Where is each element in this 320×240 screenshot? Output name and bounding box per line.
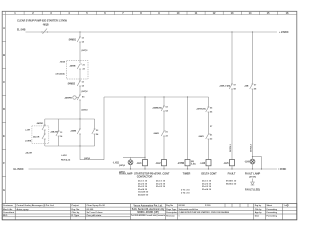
svg-text:53x54 9 10: 53x54 9 10 (138, 194, 149, 197)
contact -24MLO 97/98 (229, 84, 233, 89)
svg-text:24TOL1: 24TOL1 (229, 143, 232, 152)
top border ticks and numbers (24, 11, 277, 14)
svg-text:(24T)4: (24T)4 (84, 157, 91, 160)
svg-text:(24T)3: (24T)3 (82, 108, 89, 111)
svg-text:D. Type: D. Type (72, 215, 80, 217)
svg-text:-24MB: -24MB (70, 130, 77, 133)
svg-text:-24MLO [M]: -24MLO [M] (219, 85, 230, 88)
svg-text:FAULT: FAULT (228, 172, 236, 175)
svg-text:-24MB: -24MB (69, 65, 76, 68)
svg-text:Corr pith stato: Corr pith stato (87, 214, 102, 217)
svg-text:P-100: P-100 (205, 205, 211, 207)
contact cross reference table star (156, 181, 166, 189)
svg-text:D: D (3, 107, 5, 111)
border frame inner left line (5, 11, 7, 203)
svg-text:Clear Syrup Pu 02: Clear Syrup Pu 02 (87, 205, 106, 207)
svg-text:(47/1H): (47/1H) (249, 175, 256, 178)
contact cross reference table delta (202, 181, 212, 191)
svg-text:-CB (22/4): -CB (22/4) (55, 73, 65, 76)
svg-text:Formatting: Formatting (267, 208, 278, 211)
svg-text:Chk by: Chk by (255, 209, 263, 211)
svg-text:24TOL2: 24TOL2 (250, 143, 253, 152)
svg-text:-LOR: -LOR (25, 130, 30, 132)
fault lamp -LH6 (250, 159, 255, 164)
svg-text:24LOR: 24LOR (33, 136, 40, 139)
junctions on bottom rail (130, 168, 131, 169)
svg-text:-LH6: -LH6 (244, 161, 250, 164)
svg-text:LO/RE: LO/RE (25, 141, 32, 143)
svg-text:RUN (LO): RUN (LO) (61, 160, 70, 162)
svg-text:1 of 1: 1 of 1 (284, 205, 290, 207)
riser wire to bus (103, 97, 105, 160)
svg-text:B-91, Sector-63, electronic ci: B-91, Sector-63, electronic city (132, 208, 165, 211)
svg-text:DELTA CONT: DELTA CONT (201, 172, 217, 175)
wire bypass elbow (253, 157, 262, 169)
contact -24MB 53/54 (161, 106, 165, 111)
wire main ladder top segment (79, 32, 81, 37)
local selector branch wire (44, 119, 46, 125)
svg-text:2 T2 x 10: 2 T2 x 10 (181, 192, 190, 194)
fault branch from top rail (231, 31, 232, 32)
start pushbutton branch (58, 119, 60, 131)
contactor branch wire (144, 97, 146, 160)
svg-text:(24T)2: (24T)2 (82, 90, 89, 93)
svg-text:RUN-LAMP: RUN-LAMP (119, 172, 132, 175)
interlock contact -24M1 21/22 (206, 134, 211, 139)
svg-text:CLEAR SYRUP PUMP 02D STARTER-1: CLEAR SYRUP PUMP 02D STARTER-1 37KW (17, 20, 68, 23)
wire (79, 69, 81, 81)
svg-text:97x98 1 10: 97x98 1 10 (226, 181, 237, 183)
svg-text:NOIDA -201301 (UP): NOIDA -201301 (UP) (137, 211, 158, 214)
svg-text:Customer: Customer (3, 204, 13, 207)
svg-text:-LH2: -LH2 (155, 162, 161, 165)
svg-text:-24B: -24B (244, 85, 249, 88)
svg-text:Artos syrup: Artos syrup (17, 208, 30, 211)
border frame inner top line (2, 14, 297, 16)
title block (2, 204, 297, 220)
svg-text:-24MB1: -24MB1 (68, 39, 77, 42)
svg-text:21x4 4 10: 21x4 4 10 (138, 188, 148, 191)
svg-text:Central Godrej Beverages (I) P: Central Godrej Beverages (I) Pvt. Ltd. (17, 204, 55, 207)
run lamp connector (123, 156, 145, 158)
breaker auxiliary dashed box -MCB (67, 61, 89, 80)
svg-text:21x3 3 10: 21x3 3 10 (202, 186, 212, 188)
svg-text:-24M1: -24M1 (198, 135, 205, 138)
interlock contact -24M2 21/22 (161, 131, 166, 136)
svg-text:Tel: 0120-4510500 / e-mail: in: Tel: 0120-4510500 / e-mail: info@vecon.i… (131, 214, 165, 217)
svg-text:FAULT (LED): FAULT (LED) (245, 189, 260, 192)
contact -24MB 21/22 inside box (77, 64, 82, 69)
svg-text:-24M2: -24M2 (153, 132, 160, 135)
svg-text:-LH5: -LH5 (223, 162, 229, 165)
svg-text:21x3 3 10: 21x3 3 10 (156, 186, 166, 188)
contact fault lamp 07/08 (250, 84, 254, 89)
svg-text:TIMER: TIMER (183, 172, 191, 175)
wire (79, 86, 81, 95)
run lamp -LH11 (130, 157, 132, 160)
selector contact lower (42, 134, 46, 139)
svg-text:Revision: Revision (166, 215, 175, 217)
svg-text:B: B (3, 53, 5, 57)
svg-text:-24TM: -24TM (177, 162, 184, 165)
svg-text:W.O.: W.O. (3, 215, 8, 217)
timer coil -24TM (185, 160, 190, 166)
bus wire (104, 96, 209, 98)
fault lamp branch from top rail (252, 31, 253, 32)
svg-text:-LH11: -LH11 (113, 161, 120, 164)
svg-text:-24MB2: -24MB2 (67, 83, 76, 86)
svg-text:Project: Project (72, 204, 80, 207)
svg-text:+ 24VDC: + 24VDC (279, 31, 289, 34)
contact -24TM 55/56 (206, 107, 210, 112)
wire down to start/stop block (79, 100, 81, 119)
selector contact -24LOR (42, 125, 46, 130)
svg-text:-24B-SB: -24B-SB (50, 131, 58, 134)
seal-in aux contact branch 53/54 (94, 119, 96, 129)
fault LED stub below rail (252, 179, 254, 183)
svg-text:02-100: 02-100 (87, 209, 94, 211)
svg-text:-24LOR: -24LOR (25, 152, 33, 155)
svg-text:21x1 1 10: 21x1 1 10 (156, 181, 166, 183)
svg-text:21x2 2 10: 21x2 2 10 (156, 183, 166, 185)
svg-text:21x4 4 10: 21x4 4 10 (202, 188, 212, 191)
contactor coil -LH1 (143, 160, 148, 166)
svg-text:-24MPB: -24MPB (64, 96, 72, 99)
svg-text:Drg. No: Drg. No (72, 209, 80, 211)
junction main rail to ladder (79, 31, 80, 32)
svg-text:FAULT LAMP: FAULT LAMP (245, 172, 261, 175)
svg-text:13x14 8 10: 13x14 8 10 (138, 191, 149, 194)
svg-text:Formatting: Formatting (267, 214, 278, 217)
svg-text:21x1 1 10: 21x1 1 10 (138, 181, 148, 183)
svg-text:G: G (3, 188, 5, 192)
svg-text:-LH1: -LH1 (136, 162, 142, 165)
svg-text:App by: App by (255, 211, 263, 214)
svg-text:E: E (3, 134, 5, 138)
svg-text:Sheet: Sheet (267, 204, 273, 207)
svg-text:EL-0VDC: EL-0VDC (14, 168, 24, 171)
star contactor branch (163, 97, 165, 106)
svg-text:Cha. by: Cha. by (72, 212, 81, 214)
star coil -LH2 (162, 160, 167, 166)
fuse F1 symbol (43, 29, 48, 34)
svg-text:CONTACTOR: CONTACTOR (137, 175, 153, 178)
svg-text:02-100: 02-100 (179, 205, 186, 207)
emergency stop push button -24MPB E1 (73, 95, 81, 100)
svg-text:Formatting: Formatting (267, 211, 278, 214)
svg-text:95x96 2 10: 95x96 2 10 (226, 183, 237, 185)
contact cross reference table fault (226, 181, 237, 186)
left border ticks and letters (2, 42, 5, 177)
svg-text:Drg by: Drg by (255, 204, 262, 207)
svg-text:21x3 3 10: 21x3 3 10 (138, 186, 148, 188)
wire +24VDC top rail (26, 31, 278, 33)
contact cross reference table contactor (138, 181, 149, 197)
node top row of start/stop block (45, 118, 95, 120)
svg-text:A: A (3, 26, 5, 30)
delta contactor branch (208, 97, 210, 107)
svg-text:Schematic multi-line: Schematic multi-line (179, 208, 199, 211)
contact -24MB1 13/14 (77, 37, 81, 42)
svg-text:-LH12: -LH12 (61, 155, 67, 157)
svg-text:-LH3: -LH3 (200, 162, 206, 165)
wire ladder output (79, 146, 81, 160)
svg-text:21x2 2 10: 21x2 2 10 (202, 183, 212, 185)
svg-text:-MQB: -MQB (42, 24, 48, 26)
contact -24MB2 13/14 (77, 81, 81, 86)
svg-text:EL-2/4B: EL-2/4B (17, 28, 26, 31)
delta coil -LH3 (206, 160, 211, 166)
wire 0VDC bottom rail (29, 168, 278, 170)
svg-text:Page Type: Page Type (166, 209, 177, 211)
svg-text:(24T)4: (24T)4 (119, 164, 126, 167)
svg-text:-24TM [M]: -24TM [M] (196, 108, 206, 111)
svg-text:-24PB1: -24PB1 (36, 122, 44, 125)
svg-text:(M): (M) (191, 161, 194, 163)
svg-text:Su? com? done: Su? com? done (87, 212, 104, 214)
stop pushbutton on main (79, 119, 81, 129)
svg-text:21x1 1 10: 21x1 1 10 (202, 181, 212, 183)
svg-text:Description: Description (166, 211, 178, 214)
fault coil -LH5 (230, 160, 235, 166)
svg-text:21x2 2 10: 21x2 2 10 (138, 183, 148, 185)
wire (79, 42, 81, 63)
svg-text:-MCB: -MCB (60, 62, 66, 64)
svg-text:-24MB [M]: -24MB [M] (152, 107, 162, 110)
svg-text:(24T)1: (24T)1 (82, 49, 89, 52)
svg-text:CLEAR SYRUP PUMP 02D STARTER-1: CLEAR SYRUP PUMP 02D STARTER-1 37KW CON … (179, 211, 230, 214)
LED symbol (251, 182, 255, 185)
timer branch wire (187, 97, 189, 160)
svg-text:C: C (3, 80, 5, 84)
svg-text:Consultant: Consultant (3, 211, 14, 214)
selector dashed box (32, 126, 49, 144)
bottom row of start/stop block (45, 145, 95, 147)
svg-text:Mod. title: Mod. title (3, 208, 13, 211)
svg-text:1: 1 (179, 215, 180, 217)
svg-text:Vecon Automation Pvt. Ltd.: Vecon Automation Pvt. Ltd. (134, 205, 163, 208)
svg-text:STAR_CONT: STAR_CONT (155, 172, 170, 175)
svg-text:= 0VDC: = 0VDC (278, 168, 287, 171)
contact cross reference table timer (181, 190, 190, 195)
svg-text:Drg No: Drg No (166, 204, 174, 207)
svg-text:2 T1 x 10: 2 T1 x 10 (181, 190, 190, 192)
